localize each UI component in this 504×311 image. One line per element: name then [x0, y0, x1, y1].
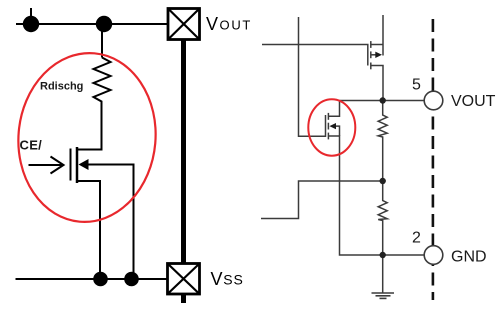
- wire stub above node: [30, 8, 32, 24]
- node dot GND: [380, 252, 386, 258]
- svg-text:GND: GND: [451, 249, 487, 266]
- wire top rail: [16, 23, 168, 25]
- svg-text:2: 2: [412, 230, 421, 247]
- node junction dot bottom source: [93, 272, 108, 287]
- red highlight ellipse left: [11, 47, 162, 227]
- transistor M1 source contact bar (PMOS): [370, 41, 372, 48]
- transistor M2 source contact bar: [327, 133, 329, 140]
- pin 5 terminal circle: [424, 91, 443, 110]
- node junction dot bottom body: [124, 272, 139, 287]
- wire M1 drain stub down to VOUT node: [371, 66, 383, 101]
- resistor Rdischg: [94, 58, 111, 105]
- wire M1 source stub: [371, 44, 383, 46]
- wire VOUT net vertical to resistor: [101, 24, 103, 58]
- wire to ground symbol: [382, 255, 384, 293]
- wire body to VSS rail: [87, 165, 134, 280]
- wire thick stub below VSS: [181, 294, 186, 303]
- svg-text:Rdischg: Rdischg: [40, 81, 83, 93]
- transistor M2 body arrow (NMOS): [329, 123, 336, 129]
- transistor M1 body arrow (PMOS): [375, 52, 382, 58]
- node junction dot top VOUT net: [96, 16, 112, 32]
- wire M1 body line: [371, 54, 376, 56]
- transistor M1 drain contact bar: [370, 63, 372, 70]
- transistor Q1 channel bar: [76, 147, 79, 183]
- resistor R2: [378, 181, 387, 255]
- node dot feedback: [380, 178, 386, 184]
- transistor M2 drain contact bar: [327, 113, 329, 120]
- transistor M1 body contact bar: [370, 51, 372, 58]
- svg-text:CE/: CE/: [20, 138, 43, 153]
- svg-text:VOUT: VOUT: [451, 93, 496, 110]
- wire source to VSS rail: [78, 181, 100, 279]
- wire M2 body tie: [335, 126, 340, 136]
- wire M1 supply vertical: [382, 15, 384, 56]
- transistor Q1 body arrow: [79, 159, 89, 170]
- wire feedback net B: [261, 181, 383, 219]
- ground symbol: [372, 293, 395, 298]
- wire resistor to drain: [78, 104, 102, 150]
- red highlight ellipse right: [308, 99, 355, 155]
- wire PMOS gate lead + gate bar: [262, 45, 368, 66]
- pad VOUT box: [168, 9, 200, 40]
- svg-text:VOUT: VOUT: [206, 14, 252, 34]
- wire bottom rail: [16, 278, 168, 280]
- node junction dot top-left: [23, 16, 39, 32]
- svg-text:VSS: VSS: [211, 269, 244, 289]
- wire CE gate lead: [29, 164, 63, 166]
- wire net A vertical + NMOS gate lead: [299, 17, 326, 136]
- pin 2 terminal circle: [424, 246, 443, 265]
- arrow on CE lead: [51, 157, 64, 174]
- node dot VOUT: [380, 97, 386, 103]
- wire thick bus VOUT to VSS: [181, 40, 186, 264]
- resistor R1: [378, 101, 387, 182]
- svg-text:5: 5: [412, 77, 421, 94]
- transistor M2 gate bar (NMOS): [325, 115, 327, 137]
- wire M2 source stub down + GND horizontal: [328, 136, 424, 255]
- wire M2 drain stub up to VOUT node: [328, 101, 339, 117]
- package boundary dashed line: [432, 19, 435, 300]
- transistor M2 body contact bar: [327, 123, 329, 130]
- pad VSS box: [168, 264, 200, 295]
- wire VOUT node horizontal: [340, 100, 425, 102]
- transistor Q1 gate bar: [70, 149, 72, 181]
